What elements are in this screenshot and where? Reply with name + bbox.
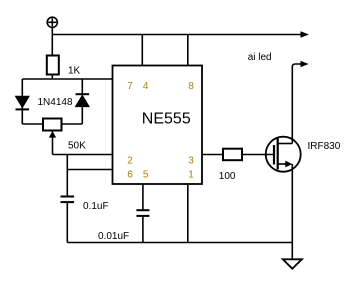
svg-text:1: 1 xyxy=(188,170,194,181)
svg-text:100: 100 xyxy=(219,171,236,182)
arrowhead top rail to led xyxy=(301,31,310,38)
svg-text:IRF830: IRF830 xyxy=(308,141,341,152)
transistor Q1 IRF830 xyxy=(266,137,301,172)
diode D2 1N4148 (pointing up) xyxy=(76,94,90,106)
wire source down to ground xyxy=(291,164,293,259)
wire left branch to pot left terminal xyxy=(22,123,43,125)
wire junction down to capacitor C1 xyxy=(66,155,68,196)
wire resistor R2 to gate xyxy=(242,154,274,156)
wire right branch to pot right terminal xyxy=(62,123,83,125)
wire pin 4 to top rail xyxy=(141,35,143,66)
resistor R2 100 body xyxy=(223,149,242,161)
svg-text:3: 3 xyxy=(188,156,194,167)
wire to pin 6 xyxy=(67,169,112,171)
svg-text:4: 4 xyxy=(143,81,149,92)
wire pin 5 to capacitor C2 xyxy=(142,184,144,209)
wire pin 8 to top rail xyxy=(187,35,189,66)
svg-text:8: 8 xyxy=(188,81,194,92)
wire top rail xyxy=(52,34,302,36)
potentiometer wiper arrow xyxy=(49,131,56,155)
wire pin 1 to ground rail xyxy=(187,184,189,243)
svg-text:0.01uF: 0.01uF xyxy=(98,231,129,242)
power supply symbol V+ xyxy=(47,17,57,27)
capacitor C2 0.01uF xyxy=(136,210,149,216)
IC U1 NE555 body xyxy=(113,66,203,185)
diode D1 1N4148 (pointing down) xyxy=(16,96,30,109)
wire power drop to resistor R1 top xyxy=(51,27,53,55)
svg-text:ai led: ai led xyxy=(248,52,272,63)
wire wiper to pin 2 xyxy=(53,154,113,156)
wire right diode branch upper xyxy=(81,79,83,94)
svg-text:50K: 50K xyxy=(68,140,86,151)
capacitor C1 0.1uF xyxy=(61,197,75,203)
wire resistor R1 bottom to node xyxy=(51,75,53,80)
svg-text:0.1uF: 0.1uF xyxy=(83,201,109,212)
wire capacitor C1 to ground rail xyxy=(66,203,68,243)
svg-text:NE555: NE555 xyxy=(142,111,191,128)
wire pin 3 to resistor R2 xyxy=(202,154,223,156)
svg-text:2: 2 xyxy=(127,156,133,167)
resistor R1 1K body xyxy=(47,56,59,75)
wire left diode branch lower xyxy=(21,108,23,125)
ground symbol xyxy=(283,259,302,268)
svg-text:5: 5 xyxy=(143,170,149,181)
svg-text:6: 6 xyxy=(127,170,133,181)
wire bottom ground rail xyxy=(67,242,292,244)
wire drain up to led arrow xyxy=(292,64,301,144)
arrowhead drain to led xyxy=(301,61,309,68)
svg-text:1N4148: 1N4148 xyxy=(38,97,73,108)
potentiometer 50K body xyxy=(43,119,62,131)
wire right diode branch lower xyxy=(81,107,83,125)
wire left diode branch upper xyxy=(21,79,23,97)
wire capacitor C2 to ground rail xyxy=(142,217,144,243)
wire pin 7 node rail xyxy=(22,78,112,80)
svg-text:7: 7 xyxy=(127,81,133,92)
svg-text:1K: 1K xyxy=(68,66,81,77)
